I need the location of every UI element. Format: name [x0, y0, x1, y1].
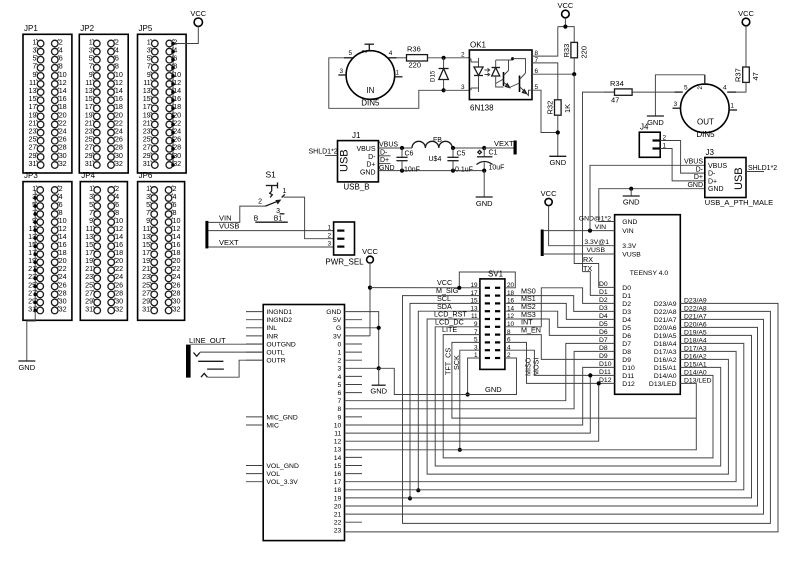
ground GND (below R32) [549, 155, 566, 157]
svg-text:OUT: OUT [697, 118, 714, 127]
svg-text:17: 17 [334, 479, 342, 486]
node junction row3 [377, 366, 381, 370]
svg-text:D1: D1 [599, 289, 608, 296]
svg-text:18: 18 [334, 487, 342, 494]
wire R32 bottom [557, 115, 559, 156]
pin stub left [246, 343, 263, 345]
svg-text:8: 8 [338, 406, 342, 413]
wire VEXT net to PWR_SEL pin 3 [208, 246, 333, 248]
stub row4 [345, 375, 363, 377]
svg-text:9: 9 [338, 414, 342, 421]
svg-text:GND: GND [687, 182, 703, 189]
node junction C1 bottom / GND [482, 169, 486, 173]
pin 5 stub of DIN5 IN [344, 57, 353, 59]
svg-text:SHLD1*2: SHLD1*2 [748, 165, 777, 172]
resistor R37 47 [743, 67, 750, 82]
wire GND rail [378, 170, 484, 172]
wire VCC stem [564, 18, 566, 27]
svg-text:13: 13 [334, 447, 342, 454]
pin 2 stub of DIN5 IN [368, 44, 370, 51]
connector PWR_SEL [334, 222, 355, 255]
stub row22 [345, 521, 363, 523]
svg-text:GND: GND [485, 385, 502, 394]
wire J4 pin1 to J3 D+ [660, 149, 705, 181]
svg-text:D6: D6 [599, 329, 608, 336]
wire R36 to OK1 pin 2 [444, 57, 470, 59]
svg-text:31: 31 [85, 304, 93, 313]
svg-text:32: 32 [115, 304, 123, 313]
svg-text:J3: J3 [706, 148, 715, 157]
wire VCC line to SV1 pin19 [370, 287, 480, 289]
svg-text:GND: GND [360, 169, 376, 176]
svg-text:22: 22 [334, 520, 342, 527]
svg-text:INGND1: INGND1 [266, 309, 292, 316]
svg-text:D10: D10 [622, 365, 635, 372]
wire SV1 pin2 loop to GND rail [468, 358, 517, 395]
svg-text:VCC: VCC [738, 9, 754, 18]
svg-text:D5: D5 [599, 321, 608, 328]
wire G row [345, 327, 379, 329]
svg-text:D3: D3 [622, 309, 631, 316]
svg-text:D6: D6 [622, 333, 631, 340]
svg-text:TEENSY 4.0: TEENSY 4.0 [630, 270, 669, 277]
pin stub left [246, 359, 263, 361]
svg-text:VBUS: VBUS [379, 142, 398, 149]
stub row15 [345, 465, 363, 467]
svg-text:32: 32 [115, 159, 123, 168]
svg-text:D16/A2: D16/A2 [654, 357, 677, 364]
svg-text:JP1: JP1 [24, 24, 38, 33]
jack contact bar 1 [198, 360, 223, 362]
svg-text:3: 3 [276, 208, 280, 215]
svg-text:USB: USB [339, 149, 351, 172]
svg-text:D17/A3: D17/A3 [654, 349, 677, 356]
svg-text:D12: D12 [599, 377, 612, 384]
pin stub left [246, 327, 263, 329]
pin stub left [246, 319, 263, 321]
svg-text:3: 3 [461, 84, 465, 91]
wire DIN5 IN pin5 to OK1 pin3 (bottom loop) [329, 58, 444, 109]
svg-text:6: 6 [338, 390, 342, 397]
svg-text:5: 5 [684, 85, 688, 92]
svg-text:VUSB: VUSB [622, 251, 641, 258]
wire jack ring to OUTR [207, 360, 263, 377]
svg-text:6N138: 6N138 [470, 104, 494, 113]
label VEXT flag [484, 147, 514, 149]
wire row20 to Teensy D20/A6 [345, 327, 758, 506]
wire OK1 pin5 to ground [532, 90, 558, 132]
svg-text:C6: C6 [405, 151, 414, 158]
svg-text:15: 15 [334, 463, 342, 470]
svg-text:GND: GND [708, 186, 724, 193]
svg-text:20: 20 [334, 503, 342, 510]
svg-text:VEXT: VEXT [494, 139, 514, 148]
wire MS1 to Teensy D4 [505, 303, 615, 319]
svg-text:12: 12 [334, 439, 342, 446]
wire SV1 pin1 to GND rail [468, 358, 480, 395]
transistor Q1 (first of darlington) [503, 72, 505, 86]
svg-text:1: 1 [283, 188, 287, 195]
LED inside OK1 [478, 58, 480, 67]
svg-text:2: 2 [327, 233, 331, 240]
node junction pin6/R33/RX [572, 72, 576, 76]
resistor R36 220 [397, 57, 407, 59]
pin stub left [246, 335, 263, 337]
wire J4 pin2 to J3 D- [660, 141, 705, 174]
svg-text:VBUS: VBUS [356, 146, 375, 153]
pin 3 stub of DIN5 IN [338, 74, 346, 76]
wire row7 to Teensy D7 [345, 343, 615, 400]
svg-text:INL: INL [266, 325, 277, 332]
wire JP3 GND bus trunk [34, 190, 36, 311]
node junction C6 top [400, 146, 404, 150]
svg-text:MOSI: MOSI [532, 358, 541, 376]
ground GND (USB filter) [476, 196, 493, 198]
wire SV1 pin6 MISO to Teensy D12 [505, 342, 615, 383]
wire VIN net to S1 pin 2 [208, 206, 265, 222]
svg-text:D-: D- [380, 149, 388, 156]
node junction GND wire [629, 187, 633, 191]
wire M_SIG down to D22 row [403, 296, 771, 524]
svg-text:4: 4 [723, 85, 727, 92]
svg-text:D-: D- [368, 154, 376, 161]
wire SV1 pin5 TFT_CS down to D13 tee [452, 342, 696, 418]
pin 3 stub of DIN5 OUT [673, 107, 681, 109]
svg-text:10: 10 [334, 422, 342, 429]
node junction R32/pin5 [556, 130, 560, 134]
svg-text:VUSB: VUSB [586, 247, 605, 254]
svg-text:21: 21 [334, 512, 342, 519]
node junction VCC/pin19 [457, 286, 461, 290]
wire SCL down to row19 [410, 303, 480, 498]
jack tip contact [194, 353, 200, 357]
wire OK1 pin7 to R32 [532, 63, 558, 100]
svg-text:C1: C1 [489, 150, 498, 157]
transistor Q2 (second of darlington) [519, 76, 521, 93]
capacitor C6 10nF [401, 148, 403, 157]
svg-text:3: 3 [338, 366, 342, 373]
wire R34 left to TX net [583, 92, 615, 272]
node junction pin1/GND rail [466, 392, 470, 396]
svg-text:3V: 3V [333, 333, 342, 340]
svg-text:VIN: VIN [622, 228, 633, 235]
wire VCC to JP5 pin 2 [172, 26, 198, 43]
wire row18 to Teensy D18/A4 [345, 343, 744, 489]
svg-text:4: 4 [338, 374, 342, 381]
diode D15 [443, 58, 445, 69]
wire RX net from OK1 to Teensy D0 [574, 74, 614, 287]
svg-text:D+: D+ [708, 178, 717, 185]
wire LITE down to D14 line [443, 335, 713, 458]
wire VUSB row [544, 253, 615, 255]
svg-text:VCC: VCC [362, 247, 378, 256]
wire VCC down to 3V row [369, 263, 371, 336]
wire VCC to Teensy 3.3V [549, 206, 615, 246]
wire SV1 pin20 loop to VCC [459, 272, 515, 288]
node junction D11 [588, 373, 592, 377]
wire row23 to Teensy D23/A9 [345, 303, 779, 532]
svg-text:D4: D4 [599, 313, 608, 320]
svg-text:7: 7 [338, 398, 342, 405]
svg-text:D15: D15 [430, 70, 437, 82]
stub row9 [345, 416, 363, 418]
svg-text:D2: D2 [599, 297, 608, 304]
svg-text:VCC: VCC [557, 1, 573, 10]
wire SDA down to row18 [418, 311, 480, 490]
wire row8 to Teensy D8 [345, 351, 615, 408]
wire VUSB net to PWR_SEL pin 1 [208, 230, 333, 232]
node junction C5 top [451, 146, 455, 150]
svg-text:32: 32 [173, 304, 181, 313]
svg-text:M_EN: M_EN [521, 325, 541, 334]
pin 2 stub of DIN5 OUT to GND [704, 75, 706, 84]
svg-text:D9: D9 [599, 353, 608, 360]
node junction D12 [597, 381, 601, 385]
svg-text:D15/A1: D15/A1 [654, 365, 677, 372]
svg-text:JP4: JP4 [81, 171, 95, 180]
svg-text:D14/A0: D14/A0 [654, 373, 677, 380]
capacitor C1 10uF polarized [483, 148, 485, 157]
svg-text:R32: R32 [546, 101, 555, 115]
svg-text:JP5: JP5 [139, 24, 153, 33]
svg-text:VCC: VCC [190, 9, 206, 18]
svg-text:VIN: VIN [595, 224, 606, 231]
wire row17 to Teensy D17/A3 [345, 351, 737, 481]
wire VBUS rail [378, 147, 412, 149]
wire row10 to Teensy D10 [345, 367, 615, 425]
svg-text:VOL_GND: VOL_GND [266, 463, 299, 470]
svg-text:D4: D4 [622, 317, 631, 324]
pin 1 stub of DIN5 IN [395, 76, 403, 78]
svg-text:D13/LED: D13/LED [649, 381, 677, 388]
node junction SCK/row13 [458, 448, 462, 452]
svg-text:G: G [336, 325, 341, 332]
svg-text:220: 220 [409, 61, 422, 70]
stub row1 [345, 351, 363, 353]
svg-text:OK1: OK1 [470, 41, 487, 50]
arrows (optical coupling) [485, 68, 490, 71]
svg-text:31: 31 [29, 159, 37, 168]
svg-text:VUSB: VUSB [219, 222, 239, 231]
svg-text:10uF: 10uF [489, 165, 505, 172]
wire R37 to DIN5 OUT pin4 [736, 82, 746, 92]
svg-text:VBUS: VBUS [684, 159, 703, 166]
svg-text:GND: GND [370, 386, 387, 395]
node junction C5 bottom [451, 169, 455, 173]
svg-text:D0: D0 [622, 285, 631, 292]
pin 1 stub of DIN5 OUT [729, 109, 737, 111]
svg-text:2: 2 [362, 49, 369, 53]
wire VCC to R37 [745, 26, 747, 67]
pin stub left [246, 416, 263, 418]
svg-text:31: 31 [143, 159, 151, 168]
svg-text:SV1: SV1 [488, 269, 504, 278]
pin stub left [246, 481, 263, 483]
wire S1 pin1 to PWR_SEL pin 2 [284, 197, 334, 239]
svg-text:11: 11 [334, 431, 341, 438]
capacitor C5 0.1uF [452, 148, 454, 157]
svg-text:2: 2 [258, 198, 262, 205]
node junction C1 top [482, 146, 486, 150]
wire row19 to Teensy D19/A5 [345, 335, 752, 498]
svg-text:D-: D- [696, 166, 704, 173]
resistor R33 220 [571, 42, 578, 57]
svg-text:VOL: VOL [266, 471, 280, 478]
wire OK1 pin8 to VCC rail [532, 27, 558, 56]
ground GND (DIN5 OUT shield) [647, 115, 664, 117]
svg-text:R36: R36 [407, 45, 421, 54]
svg-text:D11: D11 [622, 373, 634, 380]
svg-text:MIC: MIC [266, 422, 279, 429]
svg-text:32: 32 [59, 304, 67, 313]
svg-text:3.3V@1: 3.3V@1 [584, 239, 609, 246]
svg-text:3: 3 [327, 240, 331, 247]
svg-text:D8: D8 [622, 349, 631, 356]
wire row3 GND [345, 367, 379, 369]
svg-text:D18/A4: D18/A4 [654, 341, 677, 348]
pin stub left [246, 465, 263, 467]
svg-text:USB: USB [733, 167, 745, 190]
svg-text:VBUS: VBUS [708, 163, 727, 170]
svg-text:3: 3 [674, 101, 678, 108]
svg-text:USB_A_PTH_MALE: USB_A_PTH_MALE [705, 198, 773, 207]
svg-text:1: 1 [338, 350, 342, 357]
svg-text:INR: INR [266, 333, 278, 340]
stub row5 [345, 384, 363, 386]
svg-text:J1: J1 [352, 131, 361, 140]
node junction VIN / J3 VBUS feed [588, 229, 592, 233]
node junction SDA/row18 [416, 488, 420, 492]
pin stub left [246, 351, 263, 353]
resistor R32 1K [555, 100, 562, 115]
svg-text:DIN5: DIN5 [696, 130, 715, 139]
wire VIN row [544, 230, 615, 232]
svg-text:GND: GND [623, 198, 640, 207]
svg-text:RX: RX [583, 255, 593, 264]
svg-text:JP2: JP2 [80, 24, 94, 33]
svg-text:31: 31 [142, 304, 150, 313]
svg-text:D5: D5 [622, 325, 631, 332]
wire R33 bottom to pin6 row [573, 58, 575, 74]
stub 5V row [345, 319, 363, 321]
svg-text:5: 5 [348, 50, 352, 57]
stub row14 [345, 456, 363, 458]
svg-text:D23/A9: D23/A9 [654, 301, 677, 308]
svg-text:LINE_OUT: LINE_OUT [189, 336, 226, 345]
net flags VIN/VUSB/VEXT (left) [205, 221, 208, 249]
wire JP5 VCC bus trunk [172, 44, 174, 166]
wire jack sleeve to OUTGND [191, 343, 264, 345]
node junction D15 top [442, 56, 446, 60]
pin stub left [246, 424, 263, 426]
wire ground rail to SV1 [379, 368, 517, 394]
svg-text:VCC: VCC [541, 189, 557, 198]
svg-text:VEXT: VEXT [219, 238, 239, 247]
svg-text:INGND2: INGND2 [266, 317, 292, 324]
svg-text:OUTGND: OUTGND [266, 341, 296, 348]
wire MS0 to Teensy D3 [505, 296, 615, 312]
node junction VCC rail [563, 25, 567, 29]
wire Teensy GND pin up and right to J3 GND [599, 189, 705, 222]
svg-text:2: 2 [697, 86, 704, 90]
svg-text:D-: D- [708, 171, 716, 178]
svg-text:10nF: 10nF [404, 167, 420, 174]
svg-text:SHLD1*2: SHLD1*2 [309, 149, 338, 156]
svg-text:5: 5 [338, 382, 342, 389]
svg-text:D21/A7: D21/A7 [654, 317, 677, 324]
ground GND (audio box) [378, 368, 380, 385]
node junction C6 bottom [400, 169, 404, 173]
svg-text:LITE: LITE [442, 325, 457, 334]
svg-text:1K: 1K [563, 104, 572, 113]
ground GND (below JP3) [18, 360, 35, 362]
pin 4 stub of DIN5 IN [388, 57, 396, 59]
svg-text:R37: R37 [734, 68, 743, 82]
svg-text:D12: D12 [622, 381, 635, 388]
svg-text:47: 47 [751, 72, 760, 80]
svg-text:D+: D+ [694, 174, 703, 181]
wire M_EN down-over to Teensy D9 [505, 335, 615, 360]
svg-text:GND: GND [549, 158, 566, 167]
svg-text:3.3V: 3.3V [622, 243, 636, 250]
module TEENSY 4.0 [615, 215, 681, 395]
stub row6 [345, 392, 363, 394]
svg-text:GND: GND [326, 309, 341, 316]
photodiode inside OK1 [492, 67, 501, 69]
pin 5 stub of DIN5 OUT [675, 91, 683, 93]
connector OUT DIN5 (MIDI out socket) [681, 84, 730, 133]
svg-text:1: 1 [327, 224, 331, 231]
svg-text:0: 0 [338, 341, 342, 348]
svg-text:GND: GND [647, 118, 664, 127]
wire jack tip to OUTL [200, 351, 263, 353]
wire MS2 to Teensy D5 [505, 311, 615, 327]
svg-text:J4: J4 [640, 123, 649, 132]
svg-text:D1: D1 [622, 293, 631, 300]
svg-text:2: 2 [461, 52, 465, 59]
wire LCD_DC down to D15 line [435, 327, 721, 466]
svg-text:D22/A8: D22/A8 [654, 309, 677, 316]
wire row11 to Teensy D11 (MOSI) [345, 375, 591, 433]
svg-text:D2: D2 [622, 301, 631, 308]
stub row16 [345, 473, 363, 475]
wire INT up-over to Teensy D2 [505, 288, 615, 327]
internal collector rail OK1 [496, 59, 509, 61]
wire emitter to pin5 [527, 90, 532, 95]
svg-text:0.1uF: 0.1uF [455, 167, 473, 174]
svg-text:GND: GND [476, 199, 493, 208]
wire MS3 to Teensy D6 [505, 319, 615, 335]
svg-text:3: 3 [339, 68, 343, 75]
module audio I/O breakout [263, 305, 344, 541]
wire row13 to Teensy D13/LED [345, 383, 697, 449]
svg-text:JP6: JP6 [139, 171, 153, 180]
node junction VCC / SV1 VCC line [368, 286, 372, 290]
svg-text:32: 32 [59, 159, 67, 168]
svg-text:220: 220 [580, 46, 589, 59]
wire VIN to J3 VBUS [590, 165, 705, 230]
wire row21 to Teensy D21/A7 [345, 319, 764, 514]
svg-text:DIN5: DIN5 [361, 99, 380, 108]
connector IN DIN5 (MIDI in socket) [346, 51, 395, 100]
svg-text:D+: D+ [366, 162, 375, 169]
svg-text:GND: GND [18, 363, 35, 372]
wire SV1 pin4 MOSI to Teensy D11 [505, 350, 615, 375]
svg-text:31: 31 [85, 159, 93, 168]
svg-text:D9: D9 [622, 357, 631, 364]
svg-text:2: 2 [338, 358, 342, 365]
node junction SCL/row19 [408, 496, 412, 500]
